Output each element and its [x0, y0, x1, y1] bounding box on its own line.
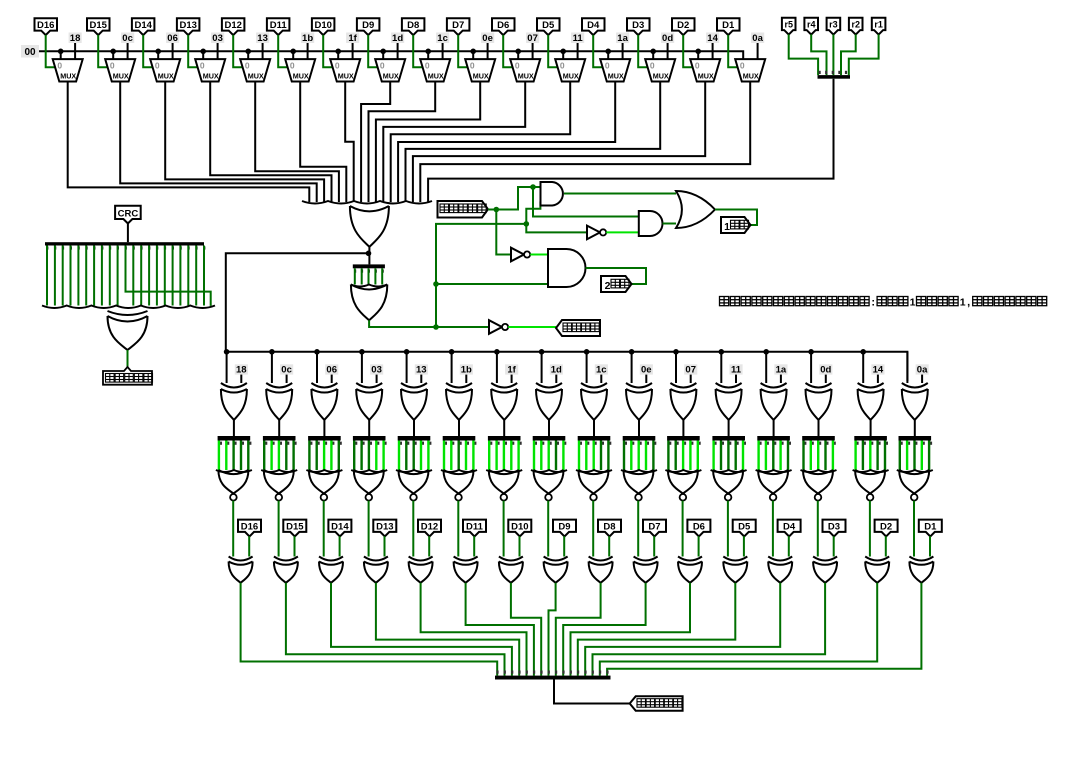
svg-text:1: 1 [910, 297, 916, 309]
wire S7 leg0 col4 [353, 441, 355, 471]
xor U3 wing line (21 inputs) [42, 306, 215, 309]
not gate U9 [489, 320, 508, 334]
junction trunk bottom [433, 324, 439, 330]
svg-text:r5: r5 [784, 20, 793, 30]
nor gate N1 bubble [230, 494, 237, 501]
wire bus drop MUX7 input0 [337, 51, 339, 59]
input pin D8 [402, 18, 425, 35]
xor gate X7a [491, 383, 517, 420]
xor gate X13b [768, 557, 792, 583]
output pin 2 bit error [601, 276, 632, 292]
wire S2 leg 3 [374, 268, 376, 284]
wire bus drop col11 [675, 352, 677, 383]
wire X11b output to final splitter leg11 [571, 583, 691, 676]
svg-text:11: 11 [731, 365, 742, 376]
xor gate X16a [902, 383, 928, 420]
xor U1 body [350, 206, 389, 247]
xor gate X16b [909, 557, 933, 583]
nor gate N8 body [534, 470, 564, 494]
wire S9 leg2 col6 [458, 441, 460, 471]
mux MUX10 [465, 59, 495, 81]
junction bus to MUX10 [470, 49, 476, 55]
svg-text:D9: D9 [362, 20, 374, 31]
wire bottom bus [226, 352, 908, 381]
constant 18 label (MUX1 input1) [69, 33, 82, 45]
svg-text:D16: D16 [241, 521, 258, 532]
wire constant to MUX10 input1 [487, 43, 489, 59]
input pin D12 (bottom) [418, 520, 441, 537]
wire splitter S1 bus to XOR U1 input 17 [428, 79, 833, 202]
svg-text:MUX: MUX [113, 72, 129, 81]
svg-text:MUX: MUX [563, 72, 579, 81]
svg-text:D14: D14 [134, 20, 152, 31]
wire U9 output to pin data-ok [508, 326, 556, 328]
wire constant to MUX7 input1 [352, 43, 354, 59]
svg-text:0c: 0c [281, 365, 292, 376]
splitter S3 (CRC fan-out 21 bits) [45, 242, 205, 249]
wire bus drop MUX6 input0 [292, 51, 294, 59]
svg-text:D5: D5 [738, 521, 751, 532]
wire S3 leg 0 [46, 246, 48, 306]
wire D14 to MUX3 select [143, 35, 152, 67]
nor gate N2 wing line [261, 470, 297, 472]
xor U3 body [108, 311, 148, 350]
svg-text:0: 0 [200, 61, 205, 71]
wire MUX14 output to XOR U1 input 14 [406, 82, 661, 203]
nor gate N6 bubble [455, 494, 462, 501]
svg-text:07: 07 [685, 365, 696, 376]
junction bus to MUX6 [290, 49, 296, 55]
svg-text:MUX: MUX [518, 72, 534, 81]
wire bus drop MUX13 input0 [607, 51, 609, 59]
and gate U5 [639, 211, 663, 236]
wire constant col10 [645, 375, 647, 383]
wire D8 to X9b [608, 536, 610, 556]
wire S12 leg1 col9 [585, 441, 587, 471]
wire S11 leg1 col8 [540, 441, 542, 471]
wire X1b output to final splitter leg1 [241, 583, 498, 676]
wire S10 leg1 col7 [495, 441, 497, 471]
wire constant col13 [780, 375, 782, 383]
svg-text:1f: 1f [348, 33, 357, 44]
splitter S7 col4 [353, 436, 387, 445]
wire S18 leg0 col15 [854, 441, 856, 471]
wire U2 output to trunk [369, 320, 436, 327]
wire S3 leg 19 [195, 246, 197, 306]
input pin D15 [87, 18, 110, 35]
wire bus drop MUX5 input0 [247, 51, 249, 59]
nor gate N16 wing line [897, 470, 933, 472]
wire constant col2 [286, 375, 288, 383]
xor gate X2a [266, 383, 292, 420]
xor gate X12b [723, 557, 747, 583]
svg-text:MUX: MUX [383, 72, 399, 81]
wire S15 leg1 col12 [720, 441, 722, 471]
wire X2b output to final splitter leg2 [286, 583, 505, 676]
wire S7 leg4 col4 [382, 441, 384, 471]
junction bus col5 [404, 349, 410, 355]
wire D16 to X1b [248, 536, 250, 556]
wire bus drop MUX12 input0 [562, 51, 564, 59]
wire X4b output to final splitter leg4 [376, 583, 519, 676]
wire S3 leg 6 [93, 246, 95, 306]
wire D11 to X6b [473, 536, 475, 556]
wire constant col4 [376, 375, 378, 383]
wire U1 output to bottom bus [226, 253, 369, 351]
svg-text:06: 06 [167, 33, 178, 44]
svg-text:0: 0 [740, 61, 745, 71]
svg-text:0: 0 [380, 61, 385, 71]
junction trunk-AND U8 [433, 281, 439, 287]
junction bus col12 [719, 349, 725, 355]
junction bus col8 [539, 349, 545, 355]
wire D8 to MUX9 select [413, 35, 422, 67]
wire S7 leg1 col4 [360, 441, 362, 471]
wire D5 to X12b [743, 536, 745, 556]
wire node A to AND U4 input1 [496, 187, 540, 210]
wire S15 leg0 col12 [712, 441, 714, 471]
wire S11 leg2 col8 [548, 441, 550, 471]
wire S3 leg 5 [85, 246, 87, 306]
wire S8 leg3 col5 [420, 441, 422, 471]
input pin D14 (bottom) [328, 520, 351, 537]
wire S3 leg 11 [132, 246, 134, 306]
xor gate X13a [761, 383, 787, 420]
svg-text:0: 0 [57, 61, 62, 71]
constant 1a label (MUX13 input1) [616, 33, 629, 45]
splitter S10 col7 [488, 436, 522, 445]
nor gate N8 wing line [531, 470, 567, 472]
svg-text:D12: D12 [224, 20, 241, 31]
mux MUX1 [53, 59, 83, 81]
junction bus to MUX7 [335, 49, 341, 55]
splitter S16 col13 [757, 436, 791, 445]
wire bus drop col9 [586, 352, 588, 383]
mux MUX6 [285, 59, 315, 81]
wire bus 00 horizontal [39, 51, 743, 59]
wire D10 to X7b [519, 536, 521, 556]
xor U1 wing line (17 inputs) [302, 201, 432, 204]
wire N8 output to X8b [547, 501, 549, 557]
svg-text:0: 0 [245, 61, 250, 71]
wire S6 leg1 col3 [316, 441, 318, 471]
junction bus to MUX14 [650, 49, 656, 55]
svg-text:D6: D6 [693, 521, 705, 532]
constant 14 label (MUX15 input1) [706, 33, 719, 45]
wire constant col14 [825, 375, 827, 383]
svg-text:D1: D1 [722, 20, 735, 31]
wire D13 to MUX4 select [188, 35, 197, 67]
wire r1 to splitter S1 [849, 34, 879, 75]
wire MUX7 output to XOR U1 input 7 [345, 82, 354, 203]
wire MUX11 output to XOR U1 input 11 [383, 82, 525, 203]
svg-text:MUX: MUX [473, 72, 489, 81]
wire S4 leg2 col1 [232, 441, 234, 471]
constant 0a label (MUX16 input1) [751, 33, 764, 45]
wire bus drop col12 [720, 352, 722, 383]
nor gate N5 bubble [410, 494, 417, 501]
constant 1a label col13 [774, 364, 787, 375]
svg-text:1c: 1c [596, 365, 607, 376]
wire S16 leg4 col13 [787, 441, 789, 471]
wire N4 output to X4b [368, 501, 370, 557]
svg-text:03: 03 [371, 365, 382, 376]
wire S3 leg 3 [70, 246, 72, 306]
svg-text:D4: D4 [587, 20, 600, 31]
wire D4 to MUX13 select [593, 35, 602, 67]
wire D7 to X10b [653, 536, 655, 556]
wire constant to MUX13 input1 [622, 43, 624, 59]
junction bus to MUX12 [560, 49, 566, 55]
wire S16 leg2 col13 [772, 441, 774, 471]
output pin corrected data [630, 696, 683, 710]
nor gate N10 body [624, 470, 654, 494]
wire S4 leg0 col1 [218, 441, 220, 471]
constant 06 label col3 [325, 364, 338, 375]
svg-text:1d: 1d [551, 365, 562, 376]
input pin D4 [582, 18, 605, 35]
constant 0c label col2 [280, 364, 293, 375]
wire S8 leg2 col5 [413, 441, 415, 471]
wire X9b output to final splitter leg9 [556, 583, 601, 676]
svg-text:0: 0 [560, 61, 565, 71]
svg-text:1a: 1a [617, 33, 628, 44]
xor gate X10b [634, 557, 658, 583]
wire constant to MUX6 input1 [307, 43, 309, 59]
wire bus drop col7 [496, 352, 498, 383]
svg-text:D2: D2 [677, 20, 689, 31]
svg-text:1b: 1b [461, 365, 472, 376]
wire S3 leg 16 [172, 246, 174, 306]
wire D15 to MUX2 select [98, 35, 107, 67]
svg-text:D1: D1 [924, 521, 937, 532]
wire r5 to splitter S1 [789, 34, 818, 75]
splitter S17 col14 [802, 436, 836, 445]
constant 13 label (MUX5 input1) [256, 33, 269, 45]
constant 07 label (MUX11 input1) [526, 33, 539, 45]
svg-text:D3: D3 [632, 20, 644, 31]
wire X15b output to final splitter leg15 [600, 583, 877, 676]
splitter S20 (final combine) [495, 671, 611, 680]
wire constant to MUX4 input1 [217, 43, 219, 59]
wire N9 output to X9b [592, 501, 594, 557]
wire bus drop MUX2 input0 [112, 51, 114, 59]
nor gate N16 body [899, 470, 929, 494]
wire S5 leg4 col2 [292, 441, 294, 471]
svg-text:0c: 0c [122, 33, 133, 44]
svg-text:06: 06 [326, 365, 337, 376]
splitter S2 (syndrome fan-out) [353, 264, 385, 272]
nor gate N13 bubble [770, 494, 777, 501]
junction bus to MUX8 [380, 49, 386, 55]
svg-text:0d: 0d [662, 33, 673, 44]
wire S6 leg2 col3 [323, 441, 325, 471]
wire S3 leg 8 [109, 246, 111, 306]
wire bus drop MUX11 input0 [517, 51, 519, 59]
junction bus to MUX3 [155, 49, 161, 55]
constant 03 label (MUX4 input1) [211, 33, 224, 45]
wire constant to MUX3 input1 [172, 43, 174, 59]
svg-text:0d: 0d [820, 365, 831, 376]
wire X3a output to splitter [323, 420, 325, 436]
svg-text:D11: D11 [466, 521, 484, 532]
wire D12 to X5b [428, 536, 430, 556]
nor gate N14 body [803, 470, 833, 494]
wire constant to MUX11 input1 [532, 43, 534, 59]
wire bus drop col4 [361, 352, 363, 383]
wire S3 leg 7 [101, 246, 103, 306]
wire bus drop col2 [271, 352, 273, 383]
wire bus drop col16 [906, 352, 908, 383]
junction node A [494, 207, 500, 213]
wire S3 leg 10 (routed) [126, 246, 211, 306]
wire N12 output to X12b [727, 501, 729, 557]
wire bus drop col3 [316, 352, 318, 383]
svg-text:0: 0 [290, 61, 295, 71]
wire S10 leg3 col7 [510, 441, 512, 471]
constant 14 label col15 [871, 364, 884, 375]
wire MUX2 output to XOR U1 input 2 [120, 82, 317, 203]
nor gate N10 wing line [621, 470, 657, 472]
wire constant to MUX16 input1 [757, 43, 759, 59]
constant 11 label (MUX12 input1) [571, 33, 584, 45]
nor gate N5 body [399, 470, 429, 494]
wire constant to MUX9 input1 [442, 43, 444, 59]
wire D14 to X3b [339, 536, 341, 556]
svg-text:D16: D16 [37, 20, 54, 31]
input pin D2 [672, 18, 695, 35]
wire MUX13 output to XOR U1 input 13 [398, 82, 615, 203]
input pin D16 (bottom) [238, 520, 261, 537]
nor gate N12 body [713, 470, 743, 494]
wire S6 leg3 col3 [330, 441, 332, 471]
junction bus col9 [584, 349, 590, 355]
wire bus drop col5 [406, 352, 408, 383]
wire N15 output to X15b [869, 501, 871, 557]
svg-text:MUX: MUX [60, 72, 76, 81]
xor gate X6b [454, 557, 478, 583]
mux MUX12 [555, 59, 585, 81]
wire S5 leg1 col2 [270, 441, 272, 471]
wire S10 leg4 col7 [517, 441, 519, 471]
svg-text:13: 13 [257, 33, 268, 44]
svg-text:0: 0 [470, 61, 475, 71]
wire S13 leg1 col10 [630, 441, 632, 471]
mux MUX4 [195, 59, 225, 81]
junction bus col4 [359, 349, 365, 355]
splitter S18 col15 [854, 436, 888, 445]
constant 1b label (MUX6 input1) [301, 33, 314, 45]
wire node C to NOT U6 input [526, 224, 587, 233]
mux MUX14 [645, 59, 675, 81]
nor gate N9 body [579, 470, 609, 494]
and gate U8 [548, 249, 586, 287]
xor gate X15b [865, 557, 889, 583]
splitter S12 col9 [578, 436, 612, 445]
svg-text:1: 1 [960, 297, 966, 309]
svg-text:0: 0 [605, 61, 610, 71]
wire X7a output to splitter [503, 420, 505, 436]
wire bus drop col8 [541, 352, 543, 383]
svg-text:D7: D7 [648, 521, 660, 532]
svg-text:0: 0 [515, 61, 520, 71]
constant 1d label (MUX8 input1) [391, 33, 404, 45]
wire node A to NOT U7 input [496, 210, 511, 255]
svg-text:MUX: MUX [248, 72, 264, 81]
wire bus drop col13 [765, 352, 767, 383]
wire bus drop MUX3 input0 [157, 51, 159, 59]
nor gate N13 body [758, 470, 788, 494]
svg-text:1b: 1b [302, 33, 313, 44]
wire D9 to MUX8 select [368, 35, 377, 67]
wire S5 leg2 col2 [278, 441, 280, 471]
wire D12 to MUX5 select [233, 35, 242, 67]
wire D13 to X4b [384, 536, 386, 556]
nor gate N12 wing line [711, 470, 747, 472]
wire S14 leg3 col11 [689, 441, 691, 471]
splitter S19 col16 [899, 436, 933, 445]
nor gate N5 wing line [396, 470, 432, 472]
wire X9a output to splitter [593, 420, 595, 436]
svg-text:D15: D15 [286, 521, 304, 532]
xor gate X4b [364, 557, 388, 583]
svg-text:D11: D11 [270, 20, 288, 31]
mux MUX15 [690, 59, 720, 81]
junction bus to MUX11 [515, 49, 521, 55]
junction bus col7 [494, 349, 500, 355]
wire X12b output to final splitter leg12 [578, 583, 736, 676]
splitter S9 col6 [443, 436, 477, 445]
wire X2a output to splitter [278, 420, 280, 436]
input pin r3 [827, 18, 841, 35]
nor gate N14 wing line [801, 470, 837, 472]
input pin D1 [717, 18, 740, 35]
svg-text:D13: D13 [376, 521, 393, 532]
input pin D14 [132, 18, 155, 35]
wire X8a output to splitter [548, 420, 550, 436]
svg-text:0: 0 [425, 61, 430, 71]
svg-text:r3: r3 [829, 20, 838, 30]
nor gate N3 bubble [321, 494, 328, 501]
input pin D3 [627, 18, 650, 35]
wire D10 to MUX7 select [323, 35, 332, 67]
wire constant col8 [555, 375, 557, 383]
wire S2 leg 0 [354, 268, 356, 284]
wire S12 leg0 col9 [578, 441, 580, 471]
wire bus drop col6 [451, 352, 453, 383]
svg-text:0: 0 [110, 61, 115, 71]
wire S2 leg 1 [361, 268, 363, 284]
constant 06 label (MUX3 input1) [166, 33, 179, 45]
wire S19 leg2 col16 [913, 441, 915, 471]
wire X14a output to splitter [818, 420, 820, 436]
constant 11 label col12 [730, 364, 743, 375]
wire bus drop MUX9 input0 [427, 51, 429, 59]
wire S5 leg3 col2 [285, 441, 287, 471]
input pin r4 [804, 18, 818, 35]
svg-text:0a: 0a [752, 33, 763, 44]
wire X14b output to final splitter leg14 [593, 583, 826, 676]
nor gate N15 wing line [853, 470, 889, 472]
constant 18 label col1 [235, 364, 248, 375]
wire S18 leg3 col15 [876, 441, 878, 471]
wire MUX10 output to XOR U1 input 10 [376, 82, 480, 203]
wire N6 output to X6b [457, 501, 459, 557]
svg-text:r2: r2 [851, 20, 860, 30]
wire S3 leg 1 [54, 246, 56, 306]
output pin data normal [556, 320, 600, 336]
wire N7 output to X7b [503, 501, 505, 557]
